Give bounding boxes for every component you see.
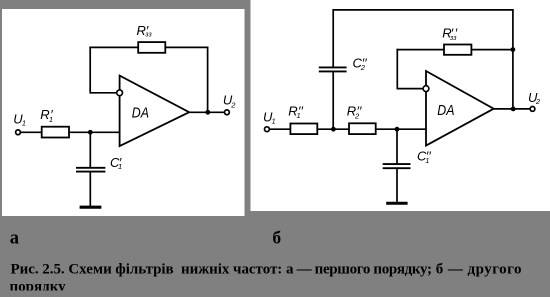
svg-text:2: 2 [535, 97, 541, 106]
svg-text:DA: DA [132, 105, 149, 122]
svg-text:1: 1 [118, 162, 122, 171]
svg-text:а — першого порядку;: а — першого порядку; [286, 262, 432, 278]
svg-text:1: 1 [425, 156, 429, 165]
svg-text:а: а [10, 228, 19, 248]
svg-text:б — другого: б — другого [436, 262, 522, 278]
svg-text:2: 2 [360, 63, 366, 72]
svg-text:2: 2 [354, 112, 360, 121]
svg-text:1: 1 [22, 118, 26, 127]
svg-text:2: 2 [230, 100, 236, 109]
svg-text:1: 1 [272, 117, 276, 126]
svg-text:Рис. 2.5. Схеми фільтрів нижн: Рис. 2.5. Схеми фільтрів нижніх частот: [11, 262, 283, 278]
svg-text:1: 1 [297, 111, 301, 120]
svg-text:зз: зз [144, 32, 152, 39]
svg-text:DA: DA [437, 102, 454, 119]
svg-text:1: 1 [49, 115, 53, 124]
svg-text:зз: зз [449, 35, 457, 42]
svg-text:б: б [272, 228, 281, 248]
